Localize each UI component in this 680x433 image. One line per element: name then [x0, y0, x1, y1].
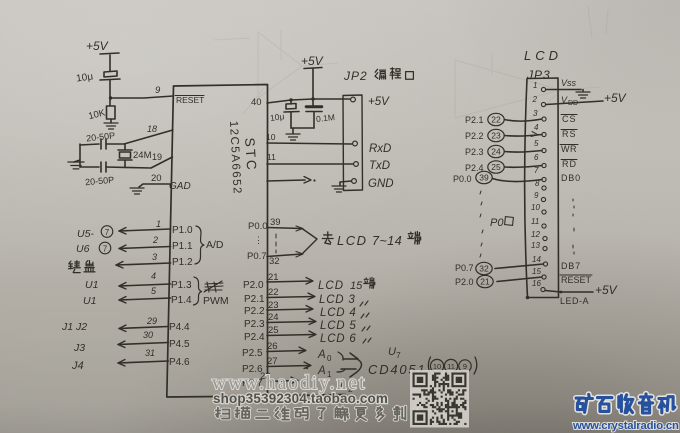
- wire RxD net: [267, 143, 352, 144]
- pin JP2-2 RxD: [353, 141, 358, 146]
- wire P2.4 to pin6: [505, 166, 543, 168]
- svg-text:24M: 24M: [133, 150, 152, 161]
- svg-text:6: 6: [534, 153, 539, 162]
- svg-text:P1.4: P1.4: [171, 295, 192, 306]
- svg-text:LCD: LCD: [524, 48, 562, 63]
- pin JP3-3 circle: [542, 117, 546, 121]
- label bianchengkou: [375, 68, 413, 80]
- svg-text:P2.2: P2.2: [244, 306, 265, 317]
- paren before pins: [428, 357, 431, 375]
- svg-text:10μ: 10μ: [269, 111, 285, 123]
- pin JP3-15 number: [532, 267, 541, 276]
- node junction C3: [311, 97, 314, 100]
- svg-text:U: U: [388, 346, 396, 358]
- label LCD title: [524, 48, 562, 63]
- node +5V JP2 supply: [301, 54, 324, 68]
- svg-text:29: 29: [146, 316, 157, 326]
- svg-text:JP3: JP3: [526, 68, 551, 82]
- pin JP3-12 number: [531, 230, 540, 239]
- svg-text:J1 J2: J1 J2: [61, 321, 87, 333]
- svg-text:2: 2: [532, 95, 538, 104]
- pin 29 number: [146, 316, 157, 326]
- node P0.0 oval: [453, 171, 492, 184]
- pin JP3-1 circle: [541, 87, 545, 91]
- ground G2: [68, 162, 84, 169]
- wire TxD net: [267, 163, 353, 165]
- svg-text:31: 31: [145, 348, 155, 358]
- svg-text:LCD 6: LCD 6: [320, 333, 357, 345]
- capacitor C5 20-50p: [101, 162, 106, 172]
- svg-text:0: 0: [327, 354, 332, 363]
- label CS: [561, 114, 577, 124]
- svg-text:26: 26: [267, 341, 278, 352]
- svg-text:9: 9: [463, 362, 467, 371]
- wire pin 29 out: [119, 325, 168, 332]
- svg-text:V: V: [561, 95, 568, 105]
- pin 22 number: [268, 287, 279, 298]
- label +5V JP2 pin: [368, 96, 390, 108]
- svg-text:24: 24: [268, 312, 279, 323]
- wire P0.7 to pin14: [495, 264, 544, 269]
- node P2.3 oval: [465, 145, 504, 157]
- pin JP3-8 circle: [542, 186, 546, 190]
- svg-text:19: 19: [152, 152, 162, 162]
- svg-text:P2.3: P2.3: [244, 319, 265, 330]
- label TxD: [369, 160, 390, 172]
- svg-text:20: 20: [151, 173, 162, 184]
- svg-text:21: 21: [480, 277, 490, 287]
- pin 3 number: [152, 252, 157, 262]
- svg-text:9: 9: [534, 191, 539, 200]
- wire +5V stem: [304, 68, 322, 100]
- label A/D: [206, 239, 224, 251]
- brace PWM group: [194, 277, 202, 305]
- label JP2: [343, 69, 368, 83]
- label dots col2: [573, 199, 574, 254]
- label DB7: [561, 261, 581, 271]
- pin 10 label: [266, 132, 276, 142]
- svg-text:1: 1: [533, 81, 537, 90]
- pin 30 number: [143, 330, 153, 340]
- label P2.0 pin: [243, 280, 264, 291]
- brace A/D group: [195, 226, 204, 264]
- wire P2.2 to pin4: [505, 132, 543, 137]
- label A1: [306, 365, 332, 379]
- bus dashes: [275, 234, 277, 253]
- svg-text:P1.0: P1.0: [172, 225, 193, 236]
- pin JP3-7 number: [534, 166, 539, 175]
- node +5V (reset pull-up supply): [86, 39, 109, 53]
- node P2.1 oval: [465, 113, 504, 125]
- svg-text:P1.2: P1.2: [172, 257, 193, 268]
- label P1.1: [172, 241, 193, 252]
- pin JP3-11 circle: [542, 224, 546, 228]
- svg-text:11: 11: [531, 217, 539, 226]
- crystal Y1 24M: [118, 144, 132, 167]
- svg-text:24: 24: [491, 147, 501, 157]
- label LCD 15 duan: [318, 278, 375, 293]
- capacitor C1 10u: [100, 71, 120, 97]
- svg-text:shop35392304.taobao.com: shop35392304.taobao.com: [213, 391, 388, 406]
- label 24M: [133, 150, 152, 161]
- svg-text:15: 15: [532, 267, 541, 276]
- label 0.1u C3: [316, 112, 336, 124]
- label dots col1: [480, 191, 483, 257]
- svg-text:A/D: A/D: [206, 239, 224, 251]
- svg-text:4: 4: [151, 271, 156, 281]
- pin JP3-9 circle: [541, 197, 545, 201]
- label P2.5 pin: [242, 348, 263, 359]
- label U6 target: [76, 242, 111, 255]
- svg-text:RS: RS: [562, 129, 577, 139]
- connector JP3 body: [525, 78, 559, 299]
- svg-text:U5-: U5-: [77, 228, 94, 240]
- wire pin 31 out: [118, 360, 168, 367]
- svg-text:7: 7: [105, 228, 110, 237]
- svg-text:RESET: RESET: [176, 95, 204, 105]
- pin 23 number: [268, 300, 279, 311]
- watermark QR code: [410, 370, 469, 428]
- svg-text:22: 22: [491, 115, 501, 125]
- svg-text:JP2: JP2: [343, 69, 368, 83]
- node A junction: [109, 96, 112, 99]
- svg-text:WR: WR: [561, 144, 577, 154]
- svg-text:27: 27: [267, 356, 278, 367]
- label RD: [561, 159, 577, 169]
- node P2.4 oval: [465, 161, 504, 173]
- pin 2 number: [152, 235, 158, 245]
- svg-text:12: 12: [531, 230, 540, 239]
- svg-text:P1.1: P1.1: [172, 241, 193, 252]
- wire to pin 19: [106, 157, 172, 168]
- pin 28 number: [260, 371, 271, 382]
- label GND JP2: [368, 178, 394, 190]
- wire mux big arrow: [341, 353, 362, 377]
- label U1 target a: [85, 279, 98, 291]
- pin JP2-1 +5V: [351, 97, 356, 102]
- wire P2.5 out: [267, 347, 306, 354]
- svg-text:P2.4: P2.4: [244, 332, 265, 343]
- label Vss: [561, 78, 577, 88]
- label 10u C2: [269, 111, 285, 123]
- label J4 target: [71, 360, 84, 372]
- pin JP3-6 circle: [542, 163, 546, 167]
- wire pin 4 out: [119, 283, 171, 290]
- pin circle 10: [430, 359, 443, 372]
- pin JP3-9 number: [534, 191, 539, 200]
- pin 1 number: [156, 219, 161, 229]
- capacitor C4 20-50p: [101, 139, 106, 149]
- svg-text:32: 32: [479, 264, 489, 274]
- capacitor C3 0.1u: [306, 99, 322, 128]
- svg-text:P4.5: P4.5: [169, 339, 190, 350]
- svg-text:P0.7: P0.7: [247, 251, 267, 262]
- ground G4: [286, 134, 300, 140]
- svg-text:GND: GND: [368, 178, 394, 190]
- label STC vertical: [242, 137, 259, 172]
- wire xtal left vertical: [74, 144, 80, 167]
- wire xtal bottom left: [80, 166, 99, 168]
- pin JP3-14 number: [532, 255, 541, 264]
- svg-text:5: 5: [534, 139, 539, 148]
- pin 39 number: [270, 217, 281, 228]
- pin 21 number: [268, 272, 279, 283]
- svg-text:J4: J4: [71, 360, 84, 372]
- svg-text:J3: J3: [73, 342, 85, 354]
- pin JP3-6 number: [534, 153, 539, 162]
- svg-text:11: 11: [267, 152, 276, 162]
- label LCD 5: [320, 320, 370, 332]
- watermark crystalradio logo: [576, 394, 675, 413]
- svg-text:32: 32: [269, 256, 280, 267]
- label P0 box: [490, 217, 513, 229]
- wire P0.0 to pin7: [493, 179, 543, 182]
- label P1.4: [171, 295, 192, 306]
- svg-text:U1: U1: [85, 279, 98, 291]
- svg-text:www.crystalradio.cn: www.crystalradio.cn: [572, 420, 679, 432]
- wire P2.1 to pin3: [505, 119, 542, 121]
- svg-text:3: 3: [533, 109, 538, 118]
- pin JP3-8 number: [535, 179, 540, 188]
- svg-text:10: 10: [266, 132, 276, 142]
- label LCD 4: [320, 307, 369, 319]
- svg-text:LCD: LCD: [318, 280, 344, 292]
- wire P2.6 out: [267, 362, 311, 369]
- ground G5: [332, 186, 346, 192]
- label P2.6 pin: [242, 364, 263, 375]
- wire pin 2 out: [119, 245, 171, 252]
- resistor R1 10K: [107, 98, 116, 123]
- label J1 J2 target: [61, 321, 87, 333]
- pin JP3-5 number: [534, 139, 539, 148]
- pin 24 number: [268, 312, 279, 323]
- svg-text:16: 16: [532, 279, 541, 288]
- svg-text:P2.3: P2.3: [465, 147, 484, 157]
- label RESET lcd: [560, 275, 592, 285]
- wire xtal top left: [80, 144, 99, 145]
- svg-text:P0.0: P0.0: [453, 174, 472, 184]
- svg-text:9: 9: [155, 85, 161, 96]
- svg-text:2: 2: [152, 235, 158, 245]
- svg-text:P0.7: P0.7: [455, 263, 474, 273]
- wire GND pin stub: [340, 181, 352, 185]
- label LED-A: [560, 296, 589, 306]
- ground G6: [576, 92, 590, 98]
- pin 25 number: [268, 325, 279, 336]
- label P1.3: [171, 280, 192, 291]
- wire P0.7 out: [267, 252, 303, 258]
- svg-text:P4.4: P4.4: [169, 322, 190, 333]
- svg-text:22: 22: [268, 287, 279, 298]
- svg-text:P2.2: P2.2: [465, 131, 484, 141]
- svg-text:DB7: DB7: [561, 261, 581, 271]
- pin 31 number: [145, 348, 155, 358]
- mux U7 CD4051 label: [368, 362, 427, 377]
- pin JP3-16 number: [532, 279, 541, 288]
- svg-text:P2.0: P2.0: [455, 277, 474, 287]
- svg-text:U6: U6: [76, 243, 90, 255]
- label J3 target: [73, 342, 85, 354]
- label LCD 6: [320, 333, 371, 345]
- label DB0: [561, 173, 581, 183]
- label WR: [560, 144, 578, 154]
- wire vcc net pin40: [267, 99, 350, 103]
- label 12C5A6652 vertical: [227, 121, 243, 196]
- capacitor C2 10u: [284, 100, 299, 128]
- svg-text:40: 40: [251, 97, 262, 108]
- svg-text:CS: CS: [562, 114, 577, 124]
- label GND pin: [169, 181, 191, 192]
- label jianpan target: [69, 261, 96, 273]
- pin JP3-2 number: [532, 95, 538, 104]
- node +5V LCD: [604, 91, 627, 105]
- svg-text:30: 30: [143, 330, 153, 340]
- wire P2.3 to pin5: [505, 151, 543, 153]
- svg-text:LED-A: LED-A: [560, 296, 589, 306]
- wire P2.0 to pin15: [497, 277, 542, 282]
- pin 26 number: [267, 341, 278, 352]
- node P0.7 oval: [455, 262, 492, 274]
- svg-text:18: 18: [147, 124, 157, 134]
- pin JP3-11 number: [531, 217, 539, 226]
- svg-text:PWM: PWM: [203, 295, 229, 307]
- wire P2.4 out: [267, 331, 316, 338]
- watermark taobao shop: [213, 391, 388, 406]
- connector JP2 body: [343, 95, 363, 191]
- pin 9 label: [155, 85, 161, 96]
- svg-text:7: 7: [396, 350, 401, 360]
- pin JP3-10 circle: [542, 210, 546, 214]
- label A2: [302, 380, 353, 394]
- svg-text:RESET: RESET: [561, 275, 592, 285]
- scratched label: [204, 281, 223, 292]
- svg-text:P2.1: P2.1: [244, 294, 265, 305]
- label P0 dots left: [254, 235, 263, 245]
- svg-text:25: 25: [491, 162, 501, 172]
- wire P2.7 out: [267, 377, 298, 384]
- label LCD 3: [319, 294, 368, 306]
- wire P2.3 out: [267, 318, 316, 325]
- pin JP3-4 number: [534, 123, 539, 132]
- svg-text:STC: STC: [242, 137, 259, 172]
- bus wedge to LCD data: [302, 229, 317, 255]
- label U7: [388, 346, 401, 360]
- svg-text:25: 25: [268, 325, 279, 336]
- svg-text:39: 39: [479, 173, 489, 183]
- svg-text:+5V: +5V: [604, 91, 627, 105]
- svg-text:DB0: DB0: [561, 173, 581, 183]
- pin 40 label: [251, 97, 262, 108]
- svg-text:1: 1: [156, 219, 161, 229]
- pin circle 9: [459, 360, 471, 372]
- pin 32 number: [269, 256, 280, 267]
- node P2.0 oval: [455, 275, 493, 287]
- wire +5V bar: [100, 53, 119, 71]
- node P2.2 oval: [465, 129, 504, 141]
- svg-text:14: 14: [532, 255, 541, 264]
- wire mux select brace: [337, 352, 345, 372]
- label U5 target: [77, 226, 113, 240]
- ghost bleed-through lines: [214, 6, 608, 126]
- pin JP3-13 number: [531, 241, 540, 250]
- label U1 target b: [83, 295, 96, 307]
- label P4.4: [169, 322, 190, 333]
- svg-text:P2.1: P2.1: [465, 115, 484, 125]
- label 20-50P top: [86, 130, 116, 143]
- svg-text:+5V: +5V: [301, 54, 324, 68]
- label P1.0: [172, 225, 193, 236]
- svg-text:P2.5: P2.5: [242, 348, 263, 359]
- wire pin 1 out: [119, 228, 171, 235]
- svg-text:TxD: TxD: [369, 160, 390, 172]
- wire P2.0 out: [267, 278, 313, 285]
- svg-text:RD: RD: [562, 159, 577, 169]
- svg-text:39: 39: [270, 217, 281, 228]
- label PWM: [203, 295, 229, 307]
- pin JP3-1 number: [533, 81, 537, 90]
- label P4.6: [169, 357, 190, 368]
- wire reset net: [110, 96, 173, 98]
- svg-text:13: 13: [531, 241, 540, 250]
- pin JP3-7 circle: [542, 177, 546, 181]
- svg-text:U1: U1: [83, 295, 96, 307]
- node junction C2: [289, 98, 292, 101]
- svg-text:0.1M: 0.1M: [316, 112, 336, 124]
- watermark haodiy: [212, 373, 366, 394]
- node +5V LED: [595, 283, 618, 297]
- svg-text:11: 11: [447, 362, 455, 371]
- label P2.1 pin: [244, 294, 265, 305]
- svg-text:LCD: LCD: [337, 233, 368, 248]
- label P0.7 pin: [247, 251, 267, 262]
- svg-text:RxD: RxD: [369, 143, 391, 155]
- ground G3: [130, 188, 144, 194]
- svg-text:10: 10: [433, 362, 441, 371]
- svg-text:+5V: +5V: [86, 39, 109, 53]
- mcu U1 STC12C5A6652 body: [167, 85, 345, 398]
- pin 11 label: [267, 152, 276, 162]
- wire pin 30 out: [118, 341, 168, 348]
- pin JP3-14 circle: [543, 262, 547, 266]
- svg-text:P1.3: P1.3: [171, 280, 192, 291]
- svg-text:A: A: [317, 349, 326, 361]
- svg-text:+5V: +5V: [595, 283, 618, 297]
- wire floating serial stub: [267, 177, 316, 184]
- wire gnd pin 20: [139, 184, 172, 187]
- svg-text:10: 10: [531, 203, 540, 212]
- svg-text:Vss: Vss: [561, 78, 577, 88]
- wire P0.0 out: [267, 226, 303, 231]
- pin JP2-4 GND: [352, 179, 357, 184]
- svg-text:P2.0: P2.0: [243, 280, 264, 291]
- label RxD: [369, 143, 391, 155]
- wire pin 3 out: [116, 262, 171, 269]
- pin 4 number: [151, 271, 156, 281]
- wire Vss to ground: [546, 90, 583, 92]
- svg-text:7~14: 7~14: [372, 234, 402, 248]
- svg-text:23: 23: [491, 131, 501, 141]
- label 10u: [76, 71, 94, 84]
- watermark crystalradio url: [572, 420, 679, 432]
- label 20-50P bottom: [85, 175, 115, 187]
- label P1.2: [172, 257, 193, 268]
- svg-text:3: 3: [152, 252, 157, 262]
- wire P2.1 out: [267, 293, 315, 300]
- pin JP3-13 circle: [543, 246, 547, 250]
- label VDD: [561, 95, 578, 107]
- pin 5 number: [151, 286, 157, 296]
- svg-text:P0.0: P0.0: [248, 221, 268, 232]
